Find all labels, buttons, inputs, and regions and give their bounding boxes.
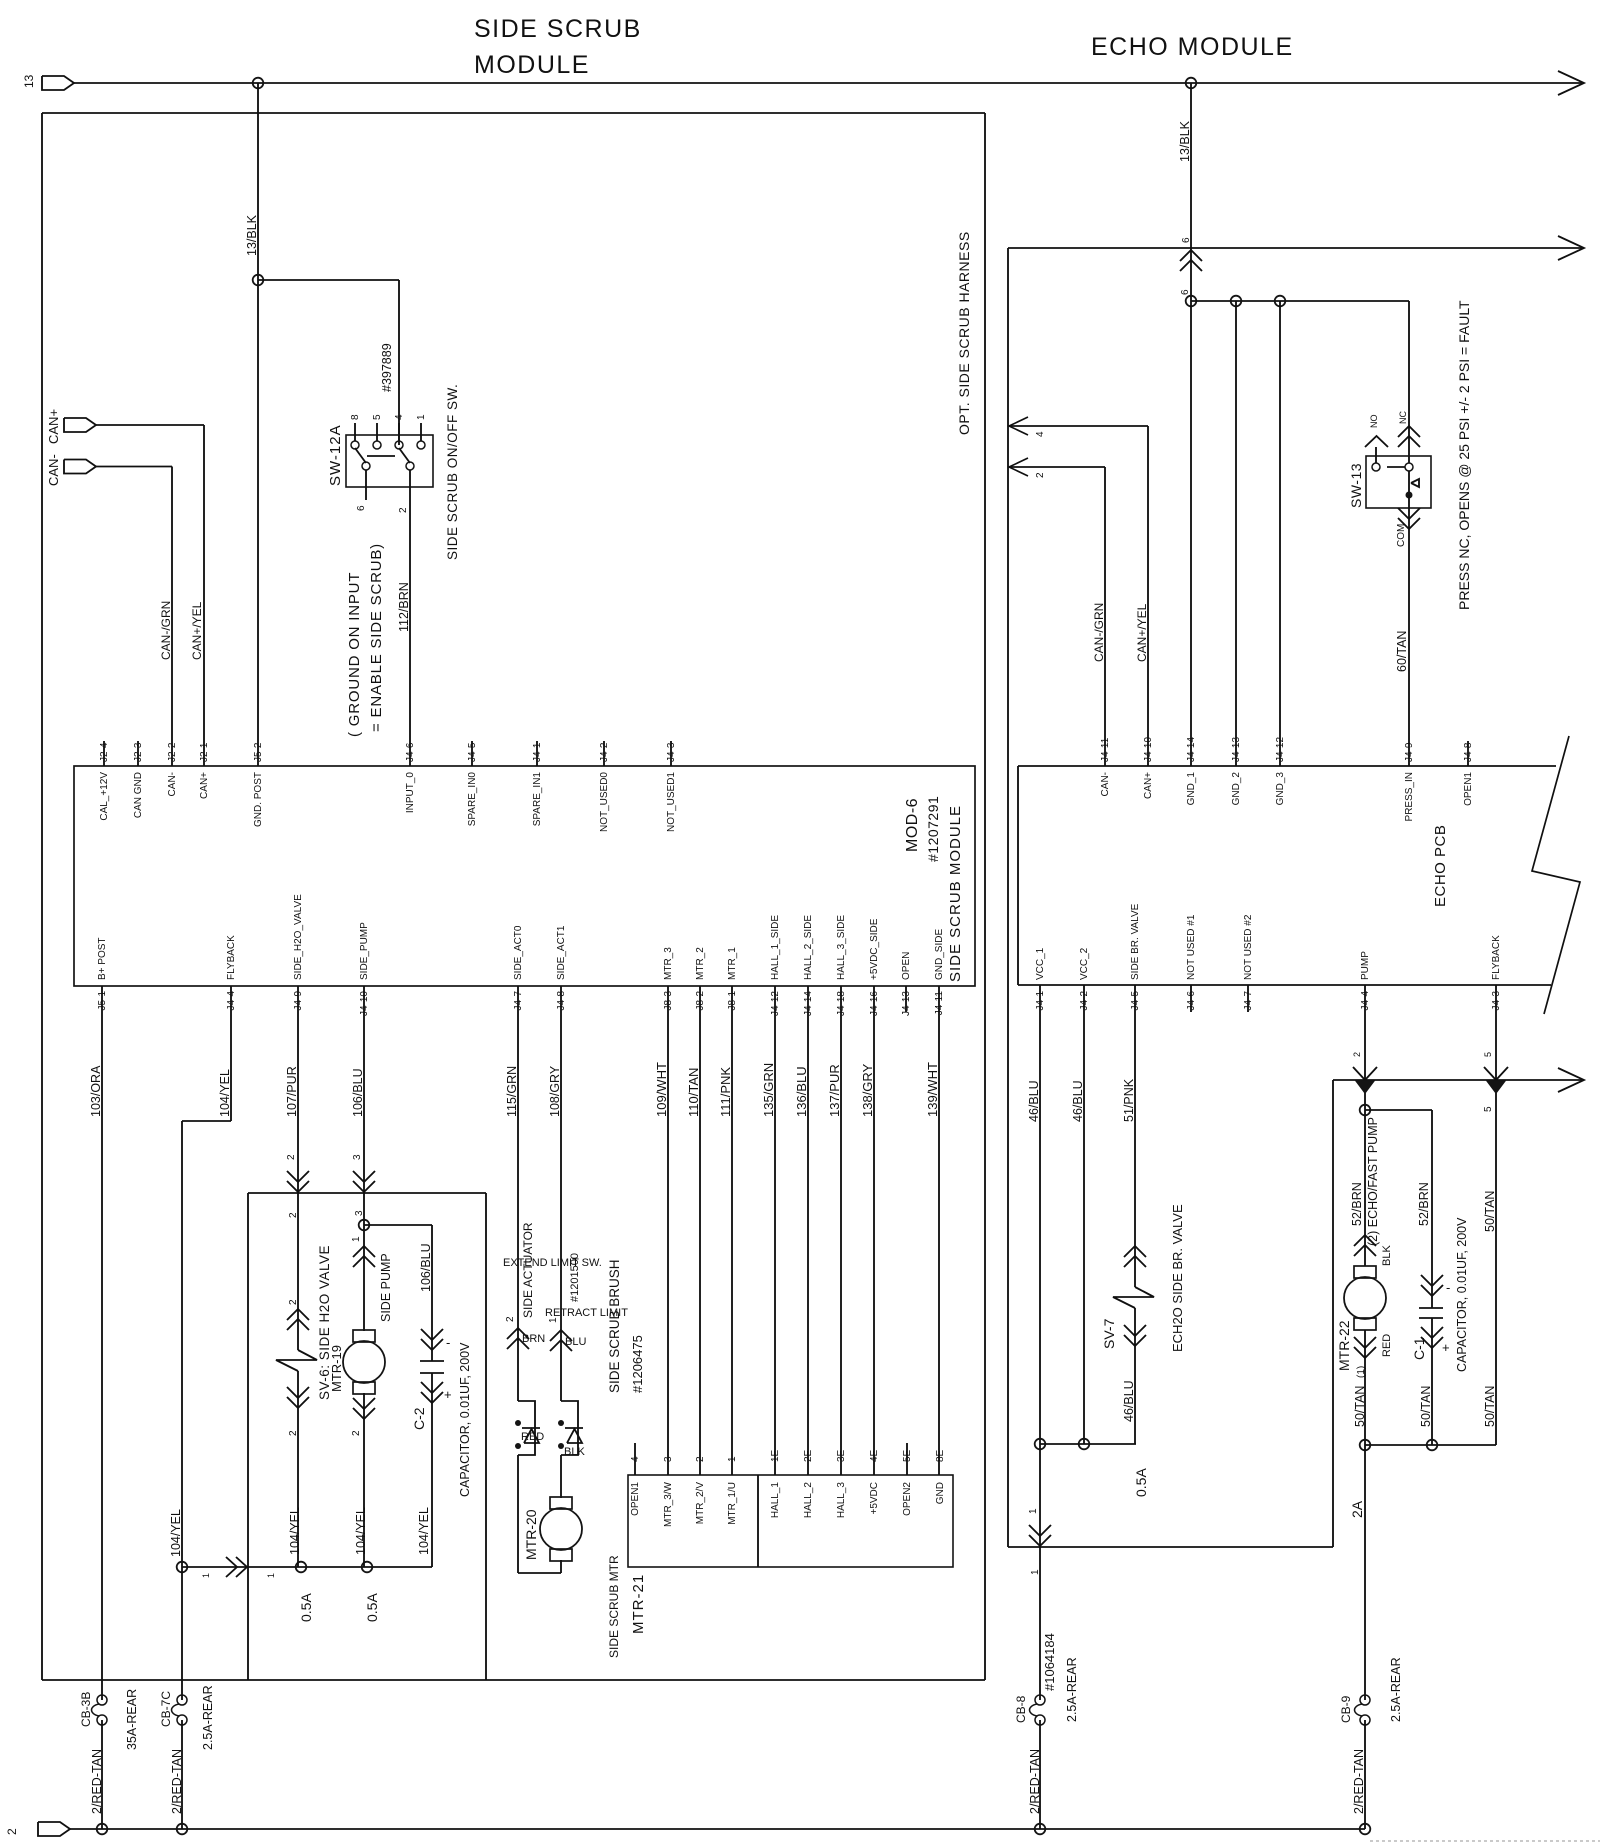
svg-text:MODULE: MODULE <box>474 51 590 79</box>
svg-text:J4-13: J4-13 <box>1231 737 1242 762</box>
svg-text:NOT USED #1: NOT USED #1 <box>1186 914 1197 980</box>
svg-text:2A: 2A <box>1349 1500 1365 1518</box>
svg-text:NOT_USED1: NOT_USED1 <box>666 772 677 832</box>
svg-text:J4-1: J4-1 <box>532 742 543 762</box>
svg-text:SIDE_H2O_VALVE: SIDE_H2O_VALVE <box>293 894 304 980</box>
svg-text:0.5A: 0.5A <box>364 1593 380 1622</box>
svg-text:4: 4 <box>1035 431 1046 437</box>
svg-text:J2-1: J2-1 <box>199 742 210 762</box>
svg-text:13: 13 <box>22 74 36 88</box>
svg-text:BLK: BLK <box>1381 1245 1393 1266</box>
svg-text:2/RED-TAN: 2/RED-TAN <box>1352 1749 1366 1814</box>
svg-text:CB-8: CB-8 <box>1014 1695 1028 1723</box>
svg-text:J4-11: J4-11 <box>1100 737 1111 762</box>
svg-text:CAN+: CAN+ <box>46 409 61 444</box>
svg-text:#1207291: #1207291 <box>925 796 941 862</box>
svg-text:2.5A-REAR: 2.5A-REAR <box>1065 1657 1079 1722</box>
svg-text:8E: 8E <box>935 1449 946 1462</box>
svg-text:+: + <box>1442 1340 1450 1355</box>
svg-text:#397889: #397889 <box>380 343 394 392</box>
svg-text:J4-10: J4-10 <box>1143 737 1154 762</box>
svg-text:103/ORA: 103/ORA <box>89 1065 103 1117</box>
svg-text:MTR-22: MTR-22 <box>1336 1320 1352 1371</box>
svg-text:46/BLU: 46/BLU <box>1027 1080 1041 1122</box>
svg-text:1: 1 <box>1030 1569 1041 1575</box>
svg-text:2/RED-TAN: 2/RED-TAN <box>1028 1749 1042 1814</box>
svg-text:13/BLK: 13/BLK <box>1178 120 1192 162</box>
svg-text:3: 3 <box>352 1154 363 1160</box>
svg-text:CAN+/YEL: CAN+/YEL <box>190 601 204 660</box>
svg-text:0.5A: 0.5A <box>298 1593 314 1622</box>
svg-text:52/BRN: 52/BRN <box>1417 1182 1431 1226</box>
svg-text:50/TAN: 50/TAN <box>1483 1386 1497 1427</box>
svg-text:50/TAN: 50/TAN <box>1483 1191 1497 1232</box>
svg-text:OPEN1: OPEN1 <box>1463 772 1474 806</box>
svg-text:MOD-6: MOD-6 <box>904 798 921 852</box>
svg-text:111/PNK: 111/PNK <box>718 1067 733 1117</box>
svg-text:-: - <box>1446 1280 1450 1295</box>
svg-text:2.5A-REAR: 2.5A-REAR <box>1389 1657 1403 1722</box>
svg-text:CAN+: CAN+ <box>1143 772 1154 799</box>
svg-text:CAN+: CAN+ <box>199 772 210 799</box>
svg-text:8: 8 <box>350 414 361 420</box>
svg-text:MTR_2: MTR_2 <box>695 947 706 980</box>
svg-text:CB-9: CB-9 <box>1339 1695 1353 1723</box>
svg-text:OPEN1: OPEN1 <box>630 1482 641 1516</box>
svg-text:137/PUR: 137/PUR <box>827 1064 842 1117</box>
svg-text:J4-6: J4-6 <box>405 742 416 762</box>
svg-text:SW-13: SW-13 <box>1348 463 1364 508</box>
svg-text:ECHO PCB: ECHO PCB <box>1432 825 1449 907</box>
svg-text:2: 2 <box>398 507 409 513</box>
svg-text:107/PUR: 107/PUR <box>285 1066 299 1117</box>
svg-text:CAN-: CAN- <box>46 454 61 486</box>
svg-text:5E: 5E <box>902 1449 913 1462</box>
svg-text:= ENABLE SIDE SCRUB): = ENABLE SIDE SCRUB) <box>368 543 385 732</box>
svg-text:SIDE BR. VALVE: SIDE BR. VALVE <box>1130 903 1141 980</box>
svg-text:ECH2O SIDE BR. VALVE: ECH2O SIDE BR. VALVE <box>1170 1204 1185 1352</box>
svg-text:SPARE_IN0: SPARE_IN0 <box>467 772 478 827</box>
svg-text:2/RED-TAN: 2/RED-TAN <box>170 1749 184 1814</box>
svg-text:(2) ECHO/FAST PUMP: (2) ECHO/FAST PUMP <box>1366 1117 1380 1246</box>
svg-text:J2-4: J2-4 <box>99 742 110 762</box>
svg-text:2: 2 <box>1035 472 1046 478</box>
svg-text:4: 4 <box>630 1456 641 1462</box>
svg-text:2: 2 <box>288 1430 299 1436</box>
svg-text:MTR_3/W: MTR_3/W <box>663 1481 674 1527</box>
svg-text:GND_SIDE: GND_SIDE <box>934 929 945 980</box>
svg-text:HALL_1_SIDE: HALL_1_SIDE <box>770 915 781 980</box>
svg-text:+5VDC_SIDE: +5VDC_SIDE <box>869 918 880 980</box>
svg-text:6: 6 <box>1181 237 1192 243</box>
svg-text:GND: GND <box>935 1482 946 1504</box>
svg-text:OPT. SIDE SCRUB HARNESS: OPT. SIDE SCRUB HARNESS <box>956 231 972 435</box>
svg-text:PUMP: PUMP <box>1360 951 1371 980</box>
svg-text:CAPACITOR, 0.01UF, 200V: CAPACITOR, 0.01UF, 200V <box>458 1342 472 1497</box>
svg-text:NOT USED #2: NOT USED #2 <box>1243 914 1254 980</box>
svg-text:51/PNK: 51/PNK <box>1122 1078 1136 1122</box>
svg-text:MTR-20: MTR-20 <box>523 1509 539 1560</box>
svg-text:2.5A-REAR: 2.5A-REAR <box>201 1685 215 1750</box>
svg-text:HALL_3: HALL_3 <box>836 1482 847 1519</box>
svg-text:1: 1 <box>1028 1508 1039 1514</box>
svg-text:RED: RED <box>1381 1334 1393 1357</box>
svg-text:( GROUND ON INPUT: ( GROUND ON INPUT <box>346 572 363 737</box>
svg-text:SIDE_ACT1: SIDE_ACT1 <box>556 925 567 980</box>
svg-text:(1): (1) <box>1356 1366 1367 1378</box>
svg-text:OPEN: OPEN <box>901 952 912 980</box>
svg-text:PRESS_IN: PRESS_IN <box>1404 772 1415 821</box>
svg-text:NC: NC <box>1398 411 1408 424</box>
svg-text:C-2: C-2 <box>411 1407 427 1430</box>
svg-text:SIDE SCRUB MODULE: SIDE SCRUB MODULE <box>947 805 964 982</box>
svg-text:106/BLU: 106/BLU <box>419 1243 433 1292</box>
svg-text:1: 1 <box>266 1573 276 1578</box>
svg-text:4: 4 <box>394 414 405 420</box>
svg-text:J4-9: J4-9 <box>1404 742 1415 762</box>
svg-text:MTR_2/V: MTR_2/V <box>695 1482 706 1525</box>
svg-text:GND_2: GND_2 <box>1231 772 1242 806</box>
svg-text:NOT_USED0: NOT_USED0 <box>599 772 610 832</box>
svg-text:ECHO MODULE: ECHO MODULE <box>1091 33 1294 61</box>
svg-text:+5VDC: +5VDC <box>869 1482 880 1515</box>
svg-text:J4-14: J4-14 <box>1186 737 1197 762</box>
svg-text:MTR-19: MTR-19 <box>329 1345 344 1392</box>
svg-text:OPEN2: OPEN2 <box>902 1482 913 1516</box>
svg-text:136/BLU: 136/BLU <box>794 1066 809 1117</box>
svg-text:RED: RED <box>521 1431 544 1443</box>
svg-text:J4-12: J4-12 <box>1275 737 1286 762</box>
svg-text:108/GRY: 108/GRY <box>548 1065 562 1117</box>
svg-text:6: 6 <box>356 505 367 511</box>
svg-text:50/TAN: 50/TAN <box>1419 1386 1433 1427</box>
svg-text:HALL_3_SIDE: HALL_3_SIDE <box>836 915 847 980</box>
svg-text:J4-8: J4-8 <box>1463 742 1474 762</box>
svg-text:CB-7C: CB-7C <box>159 1691 173 1727</box>
svg-text:CAN-: CAN- <box>1100 772 1111 796</box>
svg-text:2: 2 <box>286 1154 297 1160</box>
svg-text:CAN+/YEL: CAN+/YEL <box>1135 603 1149 662</box>
svg-text:HALL_1: HALL_1 <box>770 1482 781 1519</box>
svg-text:104/YEL: 104/YEL <box>354 1507 368 1555</box>
svg-text:J2-3: J2-3 <box>133 742 144 762</box>
svg-text:SIDE SCRUB BRUSH: SIDE SCRUB BRUSH <box>607 1259 622 1393</box>
svg-text:135/GRN: 135/GRN <box>761 1063 776 1117</box>
svg-text:CAL_+12V: CAL_+12V <box>99 772 110 821</box>
svg-text:GND. POST: GND. POST <box>253 772 264 827</box>
svg-text:0.5A: 0.5A <box>1133 1468 1149 1497</box>
svg-text:5: 5 <box>372 414 383 420</box>
svg-text:BLU: BLU <box>565 1336 586 1348</box>
svg-text:112/BRN: 112/BRN <box>397 582 411 632</box>
svg-text:5: 5 <box>1483 1106 1494 1112</box>
svg-text:-: - <box>446 1335 450 1350</box>
svg-text:MTR_1: MTR_1 <box>727 947 738 980</box>
svg-text:CAPACITOR, 0.01UF, 200V: CAPACITOR, 0.01UF, 200V <box>1455 1217 1469 1372</box>
svg-text:BLK: BLK <box>564 1446 585 1458</box>
svg-text:35A-REAR: 35A-REAR <box>125 1689 139 1750</box>
svg-text:INPUT_0: INPUT_0 <box>405 772 416 814</box>
svg-text:SIDE SCRUB ON/OFF SW.: SIDE SCRUB ON/OFF SW. <box>445 384 460 560</box>
svg-text:104/YEL: 104/YEL <box>288 1507 302 1555</box>
svg-text:FLYBACK: FLYBACK <box>1491 935 1502 980</box>
svg-text:SIDE SCRUB: SIDE SCRUB <box>474 15 642 43</box>
svg-text:5: 5 <box>1483 1052 1493 1057</box>
svg-text:13/BLK: 13/BLK <box>245 214 259 256</box>
svg-text:2: 2 <box>5 1828 19 1835</box>
svg-text:110/TAN: 110/TAN <box>686 1068 701 1117</box>
svg-text:2: 2 <box>505 1316 516 1322</box>
svg-text:SIDE_ACT0: SIDE_ACT0 <box>513 925 524 980</box>
svg-text:104/YEL: 104/YEL <box>218 1069 232 1117</box>
svg-text:FLYBACK: FLYBACK <box>226 935 237 980</box>
svg-text:J4-6: J4-6 <box>1186 991 1197 1011</box>
svg-text:J5-2: J5-2 <box>253 742 264 762</box>
svg-text:NO: NO <box>1369 415 1379 429</box>
svg-text:SIDE_PUMP: SIDE_PUMP <box>359 922 370 980</box>
svg-text:CAN GND: CAN GND <box>133 772 144 818</box>
svg-text:#1201500: #1201500 <box>569 1253 581 1302</box>
svg-text:EXTEND LIMIT SW.: EXTEND LIMIT SW. <box>503 1257 602 1269</box>
svg-text:CAN-/GRN: CAN-/GRN <box>1092 603 1106 662</box>
svg-text:J4-3: J4-3 <box>666 742 677 762</box>
svg-text:CAN-: CAN- <box>167 772 178 796</box>
svg-text:B+ POST: B+ POST <box>97 937 108 980</box>
svg-text:SV-7: SV-7 <box>1101 1318 1117 1349</box>
svg-text:GND_3: GND_3 <box>1275 772 1286 806</box>
svg-text:SPARE_IN1: SPARE_IN1 <box>532 772 543 827</box>
svg-text:46/BLU: 46/BLU <box>1122 1380 1136 1422</box>
svg-text:J4-7: J4-7 <box>1243 991 1254 1011</box>
svg-text:#1206475: #1206475 <box>630 1335 645 1393</box>
svg-text:C-1: C-1 <box>1411 1337 1427 1360</box>
svg-text:#1064184: #1064184 <box>1042 1633 1057 1691</box>
svg-text:MTR_3: MTR_3 <box>663 947 674 980</box>
svg-text:106/BLU: 106/BLU <box>351 1068 365 1117</box>
svg-text:1: 1 <box>351 1236 362 1242</box>
svg-text:139/WHT: 139/WHT <box>925 1062 940 1117</box>
svg-text:HALL_2_SIDE: HALL_2_SIDE <box>803 915 814 980</box>
svg-text:VCC_2: VCC_2 <box>1079 947 1090 980</box>
svg-text:2/RED-TAN: 2/RED-TAN <box>90 1749 104 1814</box>
svg-text:+: + <box>444 1387 452 1402</box>
svg-text:COM: COM <box>1396 524 1407 547</box>
svg-text:138/GRY: 138/GRY <box>860 1063 875 1117</box>
svg-text:2: 2 <box>351 1430 362 1436</box>
svg-text:MTR_1/U: MTR_1/U <box>727 1482 738 1525</box>
svg-text:J4-13: J4-13 <box>901 991 912 1016</box>
svg-text:52/BRN: 52/BRN <box>1350 1182 1364 1226</box>
svg-text:SW-12A: SW-12A <box>327 424 344 486</box>
svg-text:CB-3B: CB-3B <box>79 1692 93 1727</box>
svg-text:BRN: BRN <box>522 1333 545 1345</box>
svg-text:104/YEL: 104/YEL <box>417 1507 431 1555</box>
svg-text:GND_1: GND_1 <box>1186 772 1197 806</box>
svg-text:115/GRN: 115/GRN <box>505 1066 519 1117</box>
svg-text:50/TAN: 50/TAN <box>1353 1386 1367 1427</box>
svg-text:SIDE SCRUB MTR: SIDE SCRUB MTR <box>607 1555 621 1658</box>
svg-text:1: 1 <box>416 414 427 420</box>
svg-text:PRESS NC, OPENS @ 25 PSI +/-: PRESS NC, OPENS @ 25 PSI +/- 2 PSI = FAU… <box>1456 300 1472 610</box>
svg-text:109/WHT: 109/WHT <box>654 1062 669 1117</box>
svg-text:MTR-21: MTR-21 <box>630 1574 647 1634</box>
svg-text:CAN-/GRN: CAN-/GRN <box>159 601 173 660</box>
svg-text:60/TAN: 60/TAN <box>1395 631 1409 672</box>
svg-text:104/YEL: 104/YEL <box>169 1509 183 1557</box>
svg-text:46/BLU: 46/BLU <box>1071 1080 1085 1122</box>
svg-text:HALL_2: HALL_2 <box>803 1482 814 1519</box>
svg-text:2: 2 <box>1352 1052 1362 1057</box>
svg-text:VCC_1: VCC_1 <box>1035 947 1046 980</box>
svg-text:J4-2: J4-2 <box>599 742 610 762</box>
svg-text:2: 2 <box>288 1299 299 1305</box>
svg-text:SIDE ACTUATOR: SIDE ACTUATOR <box>521 1222 535 1318</box>
svg-text:J2-2: J2-2 <box>167 742 178 762</box>
svg-text:J4-5: J4-5 <box>467 742 478 762</box>
svg-text:1: 1 <box>201 1573 211 1578</box>
svg-text:6: 6 <box>1180 289 1191 295</box>
svg-text:SIDE PUMP: SIDE PUMP <box>379 1253 393 1322</box>
